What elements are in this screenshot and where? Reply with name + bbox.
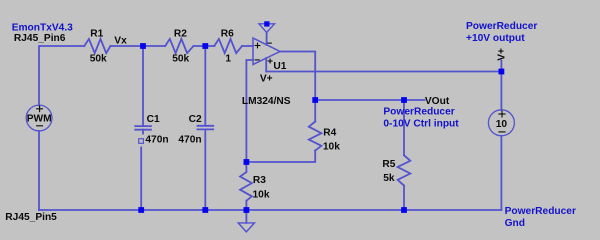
svg-text:PowerReducer: PowerReducer bbox=[466, 21, 537, 32]
resistor R3 bbox=[240, 172, 252, 201]
svg-text:PowerReducer: PowerReducer bbox=[383, 107, 454, 118]
wire R2 to R6 through node C2 bbox=[194, 45, 215, 47]
svg-text:470n: 470n bbox=[178, 134, 201, 145]
resistor R1 bbox=[84, 39, 110, 53]
svg-text:PowerReducer: PowerReducer bbox=[505, 206, 576, 217]
svg-text:EmonTxV4.3: EmonTxV4.3 bbox=[12, 23, 73, 34]
wire bottom rail RJ45_Pin5 bbox=[39, 209, 501, 211]
svg-text:5k: 5k bbox=[383, 173, 395, 184]
wire C1 bottom pin stub bbox=[142, 130, 144, 134]
wire V+ flag stub top right bbox=[500, 61, 502, 72]
svg-text:PWM: PWM bbox=[27, 113, 52, 124]
marker + noninverting input bbox=[255, 45, 261, 47]
wire VOut label stub bbox=[404, 99, 425, 101]
svg-text:50k: 50k bbox=[172, 53, 189, 64]
ground flag above op-amp V- pin bbox=[259, 24, 275, 33]
net anchor square below C1 bbox=[139, 139, 144, 144]
svg-text:10k: 10k bbox=[323, 142, 340, 153]
marker - inverting input bbox=[255, 59, 260, 61]
svg-text:R3: R3 bbox=[253, 175, 266, 186]
wire PWM bottom to bottom rail bbox=[38, 131, 40, 210]
node feedback junction bbox=[244, 159, 250, 165]
svg-text:R4: R4 bbox=[323, 128, 336, 139]
svg-text:+10V output: +10V output bbox=[466, 33, 525, 44]
wire R3 stubs bbox=[245, 162, 247, 172]
marker - PWM source bbox=[36, 125, 43, 127]
ground symbol bottom bbox=[245, 210, 247, 223]
svg-text:10: 10 bbox=[496, 119, 508, 130]
wire C2 branch bottom bbox=[204, 129, 206, 210]
resistor R2 bbox=[165, 39, 193, 53]
wire R5 branch top bbox=[403, 100, 405, 155]
svg-text:C1: C1 bbox=[147, 114, 160, 125]
marker + V+ power pin bbox=[268, 60, 273, 62]
wire V+ pin stub bbox=[265, 58, 267, 71]
svg-text:R1: R1 bbox=[90, 28, 103, 39]
capacitor C2 plates bbox=[198, 125, 214, 127]
node VOut junction bbox=[401, 97, 407, 103]
svg-text:1: 1 bbox=[225, 53, 231, 64]
marker + 10V source bbox=[498, 113, 505, 115]
marker - V- power pin bbox=[267, 42, 272, 44]
voltage source V2 10V circle bbox=[488, 110, 514, 136]
op-amp U1 triangle bbox=[253, 38, 280, 65]
wire feedback rail node to R4 bottom bbox=[246, 151, 315, 163]
svg-text:RJ45_Pin6: RJ45_Pin6 bbox=[14, 33, 66, 44]
node dot on ground flag above op-amp bbox=[264, 21, 269, 26]
svg-text:470n: 470n bbox=[145, 134, 168, 145]
node C2 top junction bbox=[202, 43, 208, 49]
wire V+ junction down to 10V source bbox=[500, 72, 502, 110]
capacitor C1 plates bbox=[135, 125, 151, 127]
wire R5 branch bottom bbox=[403, 186, 405, 210]
svg-text:V+: V+ bbox=[260, 74, 273, 85]
svg-text:R5: R5 bbox=[382, 159, 395, 170]
marker + PWM source bbox=[36, 108, 43, 110]
svg-text:10k: 10k bbox=[253, 190, 270, 201]
resistor R5 bbox=[398, 155, 411, 185]
op-amp input/power polarity markers bbox=[36, 43, 506, 132]
wire top rail left (RJ45_Pin6 to R1) bbox=[39, 46, 84, 105]
wire C1 branch top bbox=[142, 46, 144, 126]
svg-text:0-10V Ctrl input: 0-10V Ctrl input bbox=[383, 118, 459, 129]
svg-text:RJ45_Pin5: RJ45_Pin5 bbox=[5, 212, 57, 223]
svg-text:C2: C2 bbox=[189, 114, 202, 125]
wire V+ rail to +10V source bbox=[266, 71, 501, 73]
node V+ rail junction top right bbox=[499, 69, 505, 75]
marker - 10V source bbox=[498, 131, 505, 133]
node R5 bottom junction bbox=[401, 207, 407, 213]
wire C1 branch bottom bbox=[140, 147, 142, 210]
node Vx junction (C1 top) bbox=[140, 43, 146, 49]
svg-text:50k: 50k bbox=[90, 53, 107, 64]
wire R6 to op-amp noninverting input bbox=[242, 45, 253, 47]
wire 10V source bottom to bottom rail bbox=[500, 136, 502, 210]
node R3 ground junction bbox=[244, 207, 250, 213]
wire op-amp output to node VOut column bbox=[280, 52, 315, 122]
svg-text:V+: V+ bbox=[497, 48, 508, 61]
wire mid rail output node to R5 node bbox=[315, 99, 404, 101]
resistor R6 bbox=[214, 39, 242, 53]
resistor R4 bbox=[309, 122, 322, 151]
wire R1 to R2 through node Vx/C1 bbox=[111, 45, 166, 47]
svg-text:Gnd: Gnd bbox=[505, 218, 525, 229]
svg-text:R2: R2 bbox=[174, 28, 187, 39]
svg-text:LM324/NS: LM324/NS bbox=[242, 96, 291, 107]
wire V- pin stub bbox=[266, 33, 268, 45]
node C2 bottom junction bbox=[202, 207, 208, 213]
wire C2 branch top bbox=[204, 46, 206, 126]
node C1 bottom junction bbox=[138, 207, 144, 213]
node op-amp output junction bbox=[312, 97, 318, 103]
voltage source V1 PWM circle bbox=[26, 105, 52, 131]
svg-text:R6: R6 bbox=[221, 28, 234, 39]
svg-text:Vx: Vx bbox=[114, 36, 127, 47]
svg-text:U1: U1 bbox=[273, 61, 286, 72]
wire op-amp inverting input stub bbox=[246, 60, 253, 162]
